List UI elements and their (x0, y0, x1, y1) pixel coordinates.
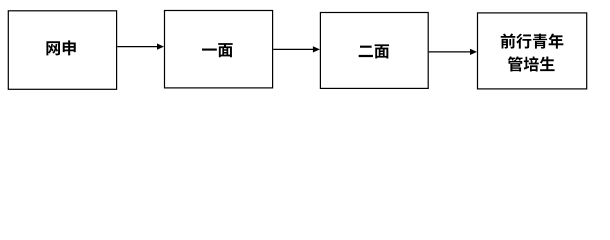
arrow 3: 二面→前行青年管培生 (429, 49, 477, 55)
process box 网申 (8, 11, 116, 90)
arrow 1: 网申→一面 (117, 44, 164, 50)
arrow 2: 一面→二面 (273, 46, 320, 52)
process box 二面 (320, 13, 428, 89)
text box4 label line1: 前行青年 (501, 34, 564, 49)
text box4 label line2: 管培生 (508, 56, 555, 71)
text box1 label: 网申 (46, 40, 75, 55)
process box 前行青年管培生 (478, 13, 587, 89)
text box3 label: 二面 (359, 44, 389, 58)
process box 一面 (165, 11, 273, 88)
text box2 label: 一面 (202, 43, 233, 57)
